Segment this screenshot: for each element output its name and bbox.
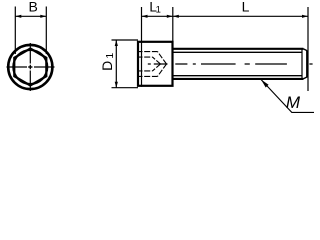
svg-text:B: B (29, 0, 38, 15)
svg-text:L1: L1 (149, 0, 161, 15)
svg-text:L: L (242, 0, 250, 15)
svg-text:D1: D1 (99, 53, 116, 71)
svg-text:M: M (286, 93, 301, 112)
